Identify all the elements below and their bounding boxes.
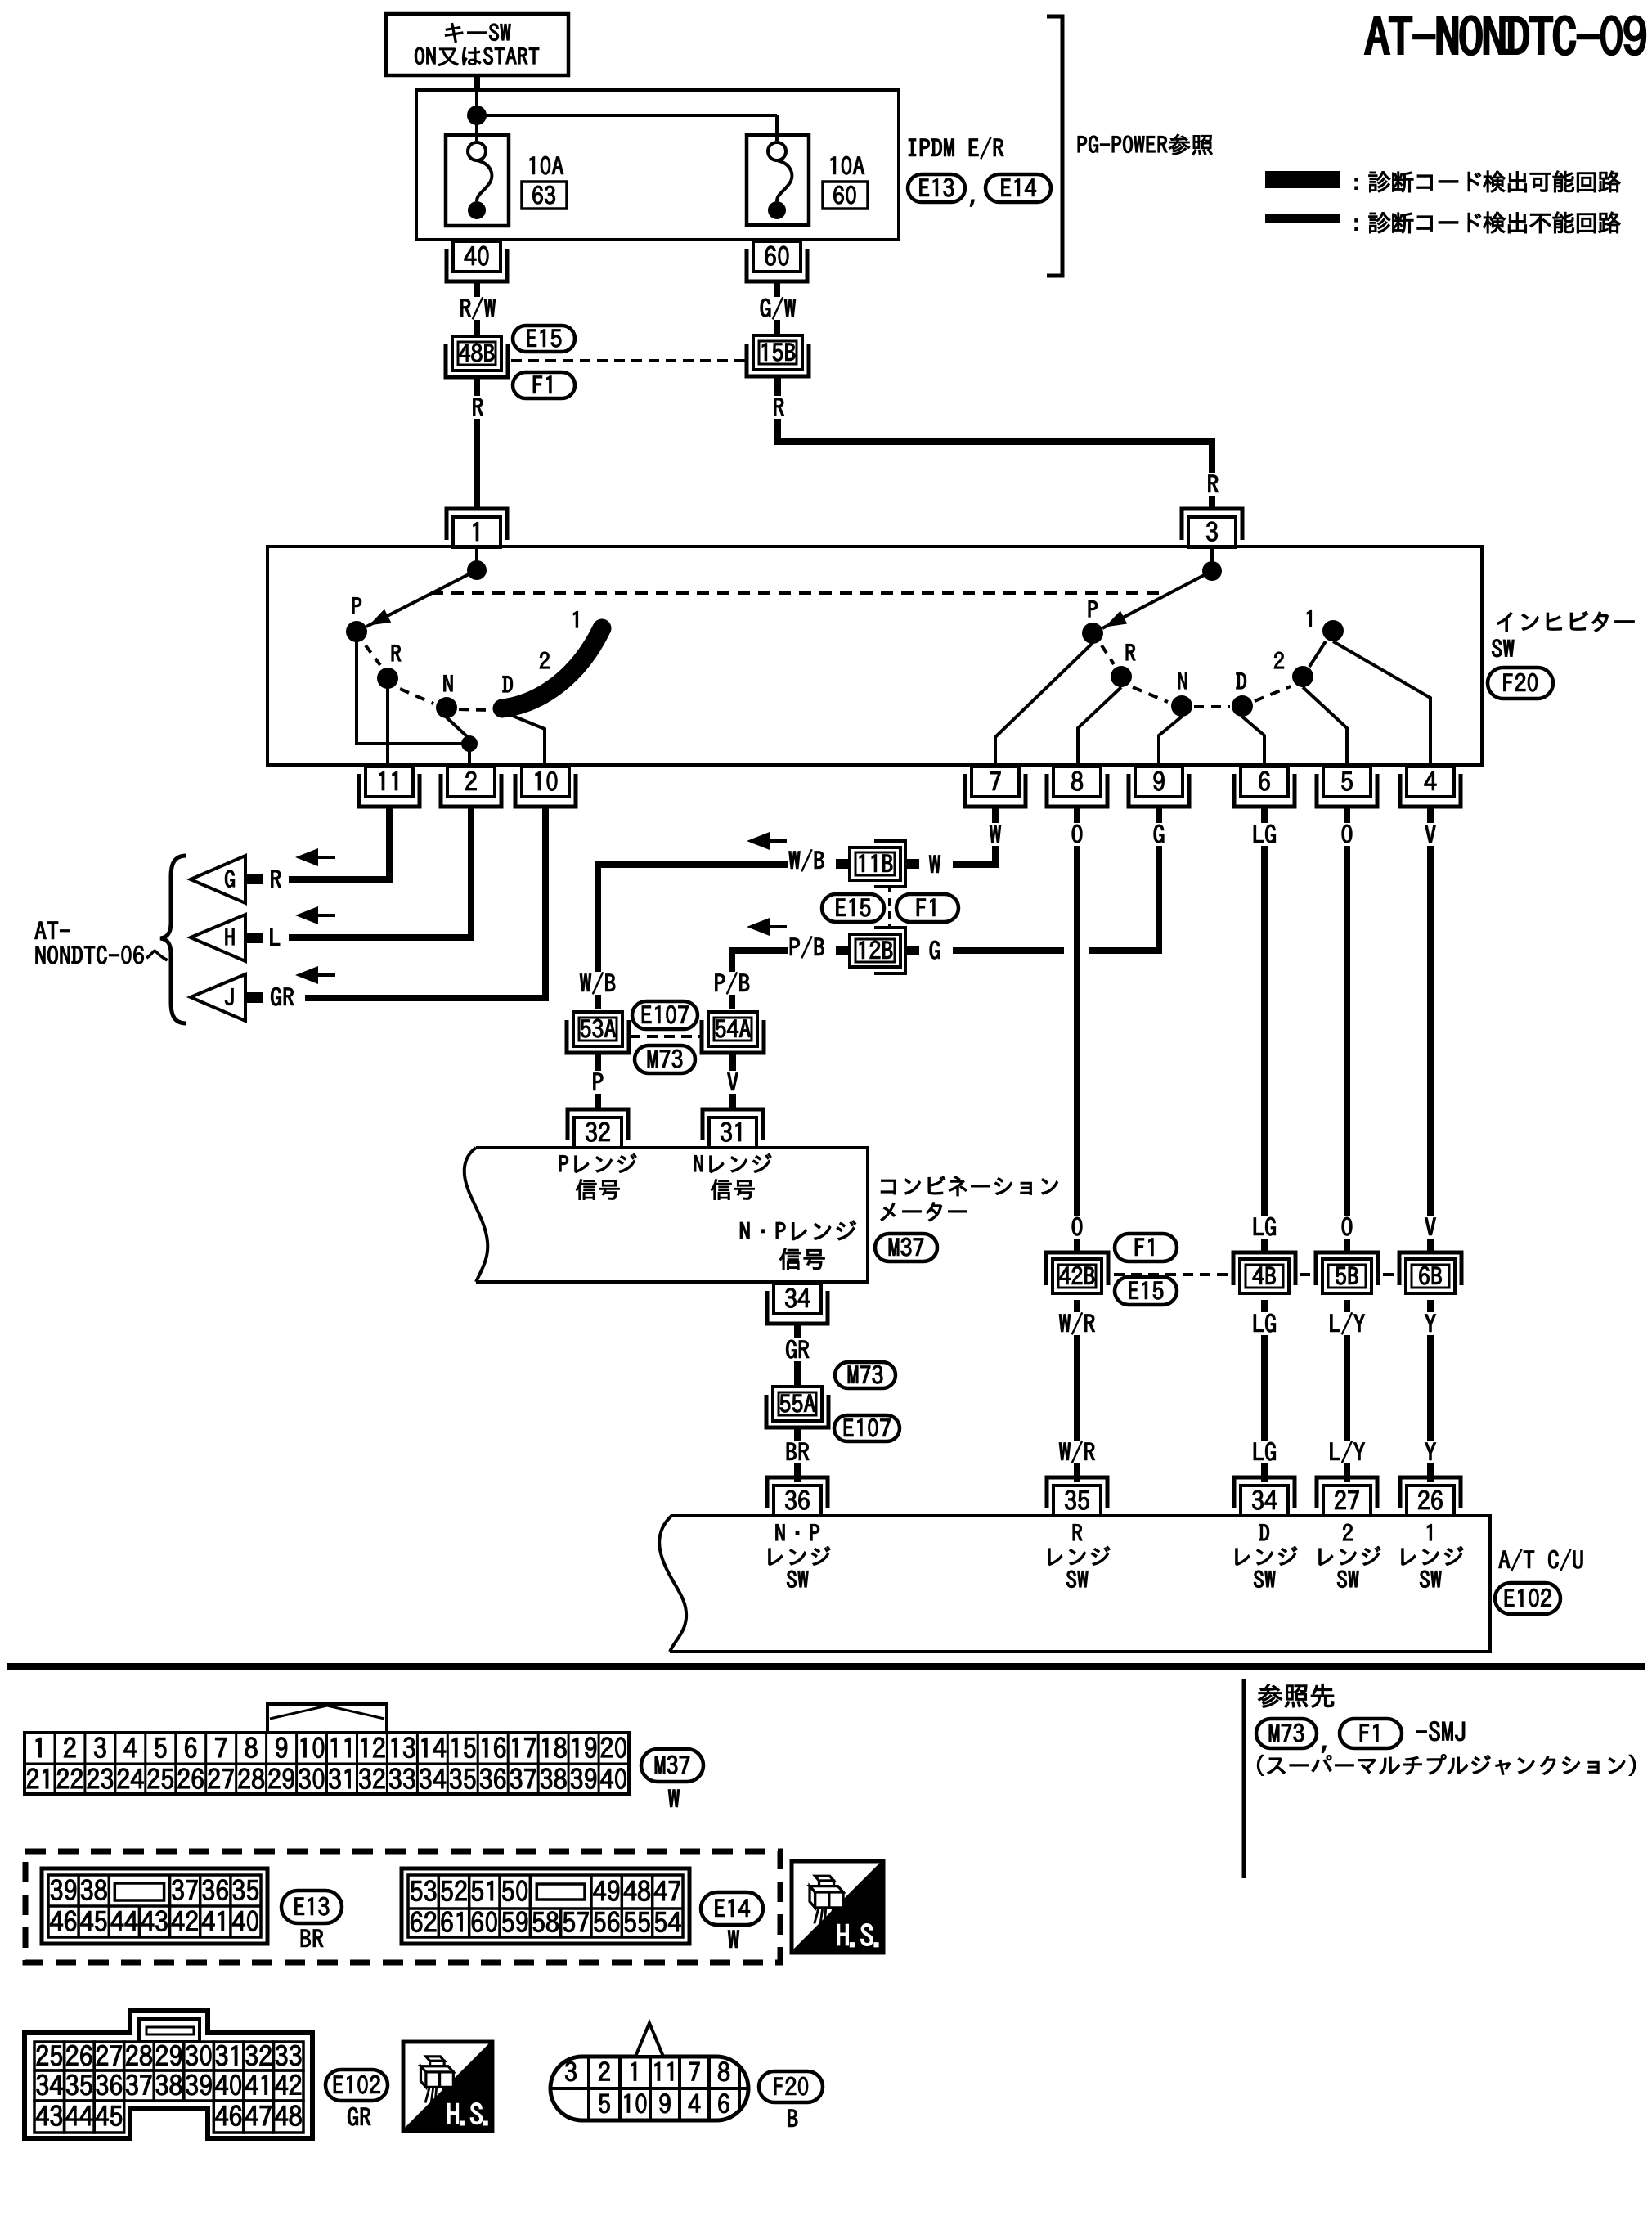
- connector 53A: [567, 1012, 629, 1053]
- wire R to triangle G: [289, 807, 389, 879]
- connector 26 pin: [1400, 1477, 1461, 1516]
- wire 48B to pin1 R: [469, 377, 487, 510]
- connector 35 pin: [1047, 1477, 1107, 1516]
- connector E14 face: [402, 1868, 689, 1944]
- combination meter label: [881, 1176, 1058, 1221]
- power source box key SW: [386, 14, 568, 75]
- connector 6 pin: [1234, 767, 1295, 807]
- connector 42B: [1046, 1252, 1108, 1293]
- SMJ note: [1257, 1754, 1635, 1775]
- connector F20 face ref: [759, 2071, 823, 2127]
- dash P-R left: [366, 645, 380, 665]
- wire R to pin11 left: [386, 688, 389, 764]
- wire 5B to pin27 LY: [1326, 1300, 1369, 1482]
- connector 36 pin: [767, 1477, 828, 1516]
- contact R left: [377, 645, 401, 689]
- wire P to pin7: [995, 643, 1093, 764]
- wiper arc left: [502, 628, 602, 708]
- wire 53A to pin32 P: [589, 1053, 608, 1110]
- AT CU box: [659, 1516, 1490, 1652]
- contact P left: [346, 597, 367, 642]
- triangle H: [191, 915, 280, 961]
- connector E13 face ref: [281, 1891, 342, 1947]
- dash P-R right: [1102, 645, 1114, 664]
- connector E107 ref 55A: [834, 1415, 900, 1441]
- legend line 1: [1355, 171, 1621, 193]
- legend line 2: [1355, 212, 1621, 234]
- arrow W/B: [747, 832, 787, 850]
- reference label: [1258, 1684, 1334, 1707]
- brace: [160, 856, 186, 1023]
- inhibitor SW label: [1492, 612, 1634, 657]
- connector M73 ref 55A: [835, 1362, 896, 1388]
- connector M73 ref bottom: [1256, 1719, 1317, 1748]
- dashed 53A-54A: [630, 1035, 701, 1038]
- dash D-2 right: [1255, 686, 1291, 701]
- dash N-D right: [1194, 705, 1230, 708]
- contact N right: [1171, 672, 1192, 717]
- connector 2 pin: [441, 767, 501, 807]
- wire key SW to IPDM: [474, 75, 480, 92]
- contact 1 right: [1307, 610, 1344, 641]
- contact D label left: [503, 676, 513, 692]
- link 2-1 right: [1309, 641, 1326, 667]
- junction dot left switch: [467, 560, 487, 580]
- combination meter box: [465, 1148, 868, 1282]
- contact 2 right: [1274, 652, 1313, 687]
- connector M37 face ref: [641, 1749, 703, 1807]
- W/B label 11B: [789, 850, 824, 872]
- connector E13 face: [42, 1868, 267, 1944]
- HS icon bottom: [403, 2042, 492, 2131]
- wire 34 to 55A GR: [782, 1324, 813, 1386]
- P range signal label: [559, 1153, 636, 1199]
- W label 11B: [929, 856, 940, 873]
- wire N to pin9: [1159, 717, 1182, 764]
- wire pin6 LG to 4B: [1249, 807, 1280, 1251]
- wire 42B to pin35 WR: [1056, 1300, 1099, 1482]
- NP range SW label: [769, 1524, 830, 1587]
- connector E15 ref mid: [822, 894, 884, 922]
- dashed box E13 E14: [25, 1851, 780, 1962]
- title AT-NONDTC-09: [1365, 16, 1645, 55]
- connector E15 ref top: [513, 326, 575, 352]
- connector E14 face ref: [701, 1892, 763, 1948]
- P/B label 12B: [790, 937, 824, 959]
- connector 34 pin atcu: [1234, 1477, 1295, 1516]
- connector M37 face: [25, 1704, 629, 1794]
- wire pin4 V to 6B: [1421, 807, 1440, 1251]
- fuse 63 10A: [446, 135, 567, 226]
- connector 10 pin: [515, 767, 576, 807]
- wiper arrow left: [366, 570, 477, 627]
- wire G to 12B segment: [953, 947, 1064, 954]
- reference divider: [1242, 1679, 1246, 1878]
- connector 48B: [446, 336, 508, 377]
- wire 1 to pin4: [1333, 641, 1430, 764]
- legend thin bar: [1265, 214, 1340, 223]
- arrow GR row: [295, 966, 335, 984]
- connector 8 pin: [1047, 767, 1107, 807]
- connector 11 pin: [359, 767, 420, 807]
- wire 6B to pin26 Y: [1421, 1300, 1440, 1482]
- junction dot pin2 left: [461, 735, 478, 752]
- triangle J: [191, 974, 294, 1021]
- connector F1 ref 42B: [1115, 1234, 1177, 1261]
- triangle G: [191, 856, 281, 903]
- connector 9 pin: [1129, 767, 1189, 807]
- contact P right: [1082, 600, 1103, 644]
- wire pin1 into switch: [475, 548, 478, 566]
- connector 4 pin: [1400, 767, 1461, 807]
- connector 5 pin: [1317, 767, 1377, 807]
- wire junction to pin2: [468, 744, 471, 764]
- SMJ label: [1416, 1721, 1465, 1741]
- wire 40 to 48B R/W: [456, 281, 500, 337]
- connector F20 face: [550, 2023, 748, 2120]
- wire pin9 G: [1089, 807, 1169, 951]
- N range signal label: [694, 1153, 772, 1199]
- IPDM E/R box: [416, 90, 899, 240]
- coupling dashed line: [431, 591, 1167, 595]
- PG-POWER bracket: [1047, 16, 1062, 276]
- NP range signal label: [740, 1221, 855, 1270]
- connector 4B: [1233, 1252, 1295, 1293]
- arrow R row: [295, 848, 335, 866]
- label 1 left: [573, 611, 577, 627]
- connector E102 ref: [1495, 1583, 1560, 1614]
- connector 15B: [747, 335, 809, 376]
- connector 32 pin: [568, 1109, 628, 1148]
- 2 range SW label: [1319, 1524, 1380, 1588]
- inhibitor switch box: [267, 546, 1482, 765]
- IPDM E/R label: [909, 137, 1003, 160]
- connector 6B: [1399, 1252, 1461, 1293]
- legend thick bar: [1265, 171, 1340, 188]
- wire P/B down to 54A: [711, 951, 788, 1009]
- connector F1 ref mid: [896, 894, 958, 922]
- connector 7 pin: [965, 767, 1026, 807]
- contact R right: [1111, 644, 1135, 687]
- wire D to pin6: [1242, 717, 1264, 764]
- wire GR to triangle J: [305, 807, 545, 998]
- connector F1 ref bottom: [1340, 1719, 1402, 1748]
- SMJ dashed vertical: [888, 885, 891, 929]
- contact N left: [436, 675, 457, 718]
- junction dot IPDM: [467, 106, 487, 125]
- arrow L row: [295, 906, 335, 924]
- connector 12B: [836, 928, 919, 973]
- connector E15 ref 42B: [1115, 1277, 1177, 1305]
- wire L to triangle H: [289, 807, 471, 937]
- connector M37 ref: [875, 1234, 937, 1261]
- dash R-N right: [1133, 687, 1168, 702]
- wire 2 to pin5: [1303, 687, 1347, 764]
- wire inside IPDM to fuses: [477, 90, 777, 141]
- arrow P/B: [747, 918, 787, 936]
- wire P to pin2 left: [357, 641, 463, 744]
- wire pin7 W: [953, 807, 1005, 865]
- HS icon top: [792, 1861, 883, 1953]
- wiper arrow right: [1102, 571, 1212, 628]
- wire R to pin8: [1078, 687, 1121, 764]
- connector 11B: [836, 841, 919, 887]
- AT CU label: [1499, 1549, 1583, 1571]
- connector F20 ref: [1488, 668, 1553, 699]
- connector 1 pin: [447, 509, 507, 547]
- dash N-D left: [459, 709, 488, 710]
- wire pin5 O to 5B: [1338, 807, 1357, 1251]
- wire D to pin10 left: [505, 713, 545, 764]
- connector F1 ref top: [513, 372, 575, 398]
- wire 4B to pin34 LG: [1249, 1300, 1280, 1482]
- connector E13 ref: [908, 174, 965, 202]
- wire W/B down to 53A: [577, 865, 788, 1009]
- wire pin3 into switch: [1210, 548, 1214, 566]
- contact D right: [1232, 672, 1253, 717]
- wire 55A to pin36 BR: [782, 1427, 813, 1482]
- SMJ dashed line mid: [1114, 1273, 1398, 1276]
- SMJ dashed line top: [511, 359, 751, 362]
- R range SW label: [1048, 1524, 1110, 1587]
- D range SW label: [1236, 1524, 1297, 1587]
- wire pin8 O to 42B: [1068, 807, 1087, 1251]
- connector E14 ref: [985, 174, 1051, 202]
- wire N to junction left: [447, 717, 469, 739]
- wire 54A to pin31 V: [724, 1053, 743, 1110]
- AT-NONDTC-06 label: [35, 922, 168, 964]
- fuse 60 10A: [747, 135, 868, 225]
- connector 55A: [766, 1387, 828, 1427]
- connector E102 face ref: [325, 2070, 388, 2125]
- comma: [970, 200, 974, 207]
- connector 54A: [702, 1012, 764, 1053]
- wire 60 to 15B G/W: [756, 281, 800, 336]
- connector 27 pin: [1317, 1477, 1377, 1516]
- dash R-N left: [400, 689, 433, 704]
- connector 60 pin: [747, 241, 807, 281]
- connector E102 face: [25, 2011, 312, 2138]
- junction dot right switch: [1202, 561, 1222, 581]
- wire 15B to pin3 R: [770, 377, 1223, 510]
- comma bottom: [1322, 1746, 1326, 1753]
- connector 3 pin: [1182, 509, 1242, 547]
- separator line: [7, 1663, 1645, 1670]
- 1 range SW label: [1402, 1524, 1463, 1587]
- label 2 left: [540, 652, 550, 668]
- connector 5B: [1316, 1252, 1378, 1293]
- connector E107 ref: [632, 1001, 698, 1029]
- connector M73 ref: [635, 1045, 695, 1073]
- connector 40: [447, 241, 507, 281]
- connector 31 pin: [703, 1109, 763, 1148]
- PG-POWER label: [1078, 134, 1212, 155]
- G label 12B: [930, 941, 940, 959]
- connector 34 pin meter: [767, 1284, 828, 1324]
